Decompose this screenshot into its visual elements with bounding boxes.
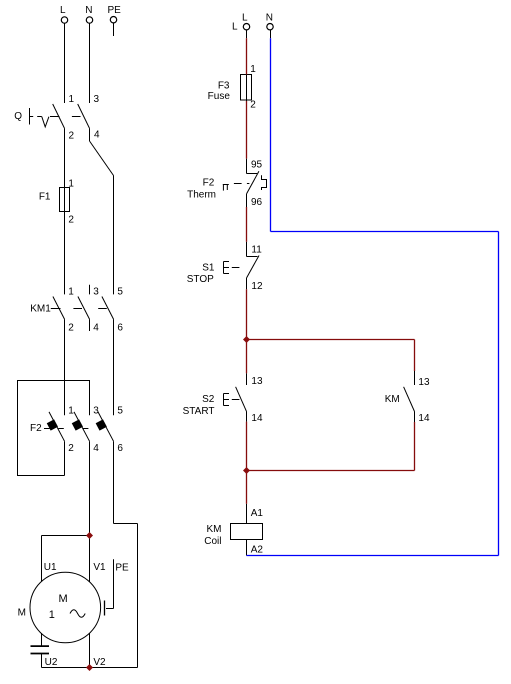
terminal N (control) (267, 24, 273, 30)
fuse F1 (39, 188, 70, 212)
svg-text:6: 6 (117, 443, 123, 454)
wire node A to S2 (246, 340, 248, 374)
svg-text:STOP: STOP (187, 274, 214, 285)
svg-text:KM: KM (385, 394, 400, 405)
F2 pole 5-6 blade (98, 412, 114, 441)
F2 pole 3-4 blade (74, 412, 90, 441)
svg-text:5: 5 (117, 406, 123, 417)
svg-text:L: L (242, 13, 248, 24)
contactor KM1 (30, 304, 107, 315)
KM1 pole 3-4 stub bottom (89, 319, 91, 331)
svg-text:PE: PE (108, 5, 122, 16)
wire KM1 pin6 to F2 pin5 (113, 319, 115, 415)
motor frame bar (104, 601, 106, 616)
wire fuse to therm (246, 101, 248, 159)
svg-text:3: 3 (94, 94, 100, 105)
wire jog right (114, 523, 138, 525)
svg-text:Fuse: Fuse (208, 91, 231, 102)
svg-text:N: N (85, 5, 92, 16)
KM1 pole 1-2 blade (53, 297, 65, 320)
Q pole 3-4 blade (78, 104, 90, 128)
wire PE stub (113, 23, 115, 36)
pushbutton S1 STOP (247, 242, 260, 289)
svg-text:14: 14 (251, 413, 263, 424)
svg-text:V2: V2 (93, 657, 106, 668)
F2 pole 1-2 blade (49, 412, 65, 441)
svg-text:1: 1 (49, 609, 55, 621)
svg-text:95: 95 (251, 160, 263, 171)
wire N to Q pin3 (89, 23, 91, 103)
svg-text:4: 4 (93, 443, 99, 454)
wire F2 pin2 to loop (64, 441, 66, 475)
terminal PE (power) (110, 17, 116, 23)
svg-text:KM1: KM1 (30, 304, 51, 315)
svg-text:1: 1 (69, 94, 75, 105)
wire PE stub to frame (113, 559, 115, 608)
F2 heater element 3 (96, 419, 107, 430)
S1 operator (224, 262, 240, 274)
terminal N (power) (86, 17, 92, 23)
coil KM (231, 504, 263, 556)
svg-text:M: M (59, 593, 68, 605)
wire L stub black (246, 30, 248, 38)
wire S2 to node B (246, 422, 248, 471)
svg-text:U1: U1 (44, 562, 57, 573)
svg-text:Q: Q (14, 111, 22, 122)
svg-text:96: 96 (251, 197, 263, 208)
wire F2 pin6 down (113, 441, 115, 523)
terminal L (power) (61, 17, 67, 23)
wire KM aux to node B (414, 422, 416, 471)
svg-text:2: 2 (69, 131, 75, 142)
wire node to U1 branch (42, 535, 90, 537)
svg-text:3: 3 (93, 406, 99, 417)
svg-text:L: L (60, 5, 66, 16)
svg-text:1: 1 (68, 179, 74, 190)
wire N jog right (271, 231, 499, 233)
svg-text:1: 1 (68, 406, 74, 417)
svg-text:2: 2 (68, 443, 74, 454)
svg-text:3: 3 (93, 287, 99, 298)
svg-text:START: START (183, 406, 215, 417)
wire F2 pin4 to node (89, 441, 91, 535)
capacitor plate top (31, 645, 50, 647)
wire N stub black (270, 30, 272, 38)
wire N right rail (498, 232, 500, 556)
svg-text:S2: S2 (202, 394, 215, 405)
wire therm to S1 (246, 207, 248, 242)
S2 operator (224, 394, 240, 406)
wire N net blue down (270, 38, 272, 231)
node junction V2 (86, 664, 93, 671)
svg-text:U2: U2 (45, 657, 58, 668)
wire motor V2 down (89, 633, 91, 667)
svg-text:4: 4 (93, 323, 99, 334)
terminal L (control) (243, 24, 249, 30)
svg-text:13: 13 (251, 376, 263, 387)
svg-text:S1: S1 (202, 262, 215, 273)
wire V1 down to motor (89, 536, 91, 582)
F2 heater element 2 (72, 419, 83, 430)
wire branch bottom horizontal (247, 470, 415, 472)
wire branch right down (414, 340, 416, 372)
svg-text:F2: F2 (203, 177, 215, 188)
svg-text:F1: F1 (39, 192, 51, 203)
svg-text:4: 4 (94, 130, 100, 141)
svg-text:1: 1 (250, 64, 256, 75)
overload F2 power (30, 423, 88, 434)
wire L net maroon top (246, 38, 248, 74)
wire L to Q pin1 (64, 23, 66, 103)
wire KM1 pin2 to F2 pin1 (64, 319, 66, 415)
wire N bottom to coil A2 (247, 555, 499, 557)
node junction at motor feed (86, 532, 93, 539)
wire right riser to bottom (137, 524, 139, 668)
motor sine symbol (70, 610, 85, 618)
svg-text:2: 2 (68, 323, 74, 334)
contact F2 therm (247, 159, 267, 207)
fuse F3 (208, 75, 252, 103)
svg-text:2: 2 (68, 215, 74, 226)
svg-text:6: 6 (117, 323, 123, 334)
wire loop box F2 (18, 381, 90, 476)
KM1 pole 5-6 blade (102, 297, 114, 320)
KM1 pole 3-4 blade (78, 297, 90, 320)
svg-text:N: N (266, 13, 273, 24)
wire Q pin4 down (89, 128, 91, 141)
svg-text:14: 14 (418, 413, 430, 424)
svg-text:Coil: Coil (204, 536, 221, 547)
KM1 pole 3-4 stub top (89, 285, 91, 295)
node A junction (243, 336, 250, 343)
capacitor plate bottom (31, 653, 50, 655)
svg-text:1: 1 (68, 287, 74, 298)
svg-text:5: 5 (117, 287, 123, 298)
wire S1 to node A (246, 289, 248, 339)
svg-text:L: L (232, 22, 238, 33)
svg-text:Therm: Therm (187, 190, 216, 201)
wire Q pin2 to F1 and KM1 pin1 (64, 128, 66, 294)
pushbutton S2 START (236, 373, 247, 421)
wire bottom rail (42, 667, 138, 669)
wire node B to coil A1 (246, 471, 248, 504)
contact KM aux (404, 371, 415, 422)
svg-text:13: 13 (418, 377, 430, 388)
wire PE horizontal (106, 608, 114, 610)
thermal operator symbol (223, 184, 250, 191)
wire U1 down to motor (41, 536, 43, 582)
switch Q (14, 108, 80, 127)
svg-text:M: M (18, 608, 26, 619)
svg-text:F3: F3 (218, 81, 230, 92)
svg-text:2: 2 (250, 100, 256, 111)
wire motor U2 down (41, 633, 43, 646)
svg-text:11: 11 (251, 244, 262, 255)
F2 heater element 1 (47, 419, 58, 430)
Q pole 1-2 blade (53, 104, 65, 128)
wire diagonal to right column (90, 141, 114, 176)
motor M circle (30, 572, 101, 643)
svg-text:V1: V1 (93, 562, 106, 573)
wire branch top horizontal (247, 339, 415, 341)
wire capacitor to bottom (41, 654, 43, 668)
svg-text:A2: A2 (251, 544, 264, 555)
node B junction (243, 467, 250, 474)
wire right column to KM1 pin5 (113, 176, 115, 295)
svg-text:12: 12 (251, 281, 263, 292)
svg-text:KM: KM (207, 524, 222, 535)
svg-text:F2: F2 (30, 423, 42, 434)
svg-text:PE: PE (115, 563, 129, 574)
svg-text:A1: A1 (251, 508, 264, 519)
